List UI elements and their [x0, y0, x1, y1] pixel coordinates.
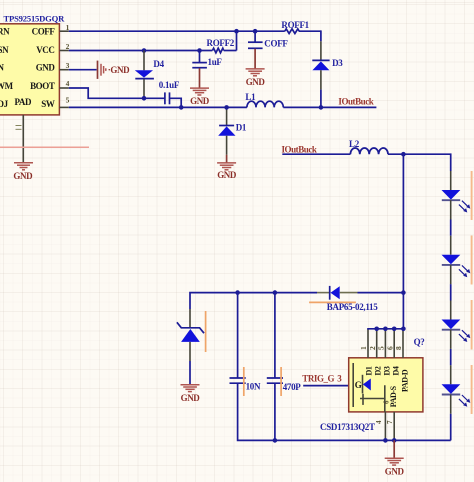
orange marker near 470P [280, 367, 282, 396]
wire VCC pin2 [69, 31, 237, 50]
svg-text:1uF: 1uF [208, 57, 223, 67]
svg-text:8: 8 [394, 346, 403, 350]
IC U1 TPS92515DGQR body [0, 13, 65, 115]
node junction D1/SW [224, 105, 229, 110]
node junction 470P/rail [273, 438, 278, 443]
node junction source pins/rail [383, 438, 396, 443]
capacitor 470P [267, 293, 302, 441]
svg-text:·GND: ·GND [108, 65, 130, 75]
svg-text:4: 4 [66, 79, 70, 88]
node junction VCC/D4 [142, 48, 147, 53]
pin 2 VCC [59, 42, 69, 51]
svg-text:WM: WM [0, 81, 14, 91]
svg-text:VCC: VCC [36, 45, 54, 55]
svg-text:470P: 470P [283, 382, 302, 392]
svg-text:0.1uF: 0.1uF [159, 80, 180, 90]
svg-text:ROFF2: ROFF2 [207, 38, 235, 48]
inductor L1 [245, 92, 283, 107]
wire IOutBuck to L2 [282, 153, 350, 155]
node junction pin1/ROFF2 [234, 29, 239, 34]
svg-text:L1: L1 [245, 92, 256, 102]
pin 4 BOOT [59, 79, 69, 88]
svg-text:BOOT: BOOT [30, 81, 55, 91]
transistor top pins [377, 293, 404, 358]
ground GND under 1uF [190, 88, 210, 106]
svg-text:G: G [355, 380, 362, 390]
inductor L2 [349, 139, 388, 154]
diode D1 freewheeling [218, 107, 247, 162]
node junction rail/10N [235, 290, 240, 295]
ground power port at pin3 [69, 61, 130, 79]
diode BAP65-02,115 [317, 286, 378, 312]
node junction pin1/COFF cap [253, 29, 258, 34]
node junction D3/SW [319, 105, 324, 110]
svg-text:D3: D3 [332, 58, 343, 68]
svg-text:D4: D4 [153, 59, 164, 69]
node junction L2/drain branch [401, 152, 406, 157]
svg-text:PAD-D: PAD-D [401, 369, 410, 392]
node junction VCC/1uF [197, 48, 202, 53]
pin 1 COFF [59, 23, 69, 32]
orange marker under BAP65 [309, 301, 356, 303]
LED D8 [442, 365, 471, 413]
svg-text:SW: SW [41, 99, 55, 109]
wire TRIG_G to gate [303, 385, 353, 387]
svg-text:TPS92515DGQR: TPS92515DGQR [4, 13, 66, 23]
diode D3 [312, 41, 343, 107]
node junction rail/470P [273, 290, 278, 295]
wire COFF pin1 to ROFF1 [69, 30, 321, 32]
wire SW pin5 [69, 106, 377, 108]
svg-text:IOutBuck: IOutBuck [338, 96, 373, 106]
svg-text:10N: 10N [246, 381, 261, 391]
svg-text:Q?: Q? [414, 337, 425, 347]
wire drain branch vertical [402, 154, 404, 292]
svg-text:PAD: PAD [15, 97, 33, 107]
LED D6 [442, 236, 471, 284]
pin 5 SW [59, 96, 69, 108]
svg-text:GND: GND [385, 466, 405, 476]
svg-text:5: 5 [66, 96, 70, 105]
net TRIG_G label [302, 374, 342, 384]
ground GND under PAD [13, 163, 33, 181]
node junctions on top bus [374, 327, 405, 332]
svg-text:D1: D1 [236, 123, 247, 133]
capacitor 1uF [192, 51, 222, 88]
svg-text:COFF: COFF [32, 27, 56, 37]
pin numbers top pins [359, 346, 403, 350]
svg-text:D4: D4 [392, 366, 401, 375]
svg-text:GND: GND [246, 77, 266, 87]
transistor bottom pins [375, 412, 394, 441]
svg-text:BAP65-02,115: BAP65-02,115 [327, 302, 378, 312]
capacitor 0.1uF [159, 80, 180, 104]
orange marker near zener [205, 311, 207, 352]
capacitor COFF [248, 31, 288, 68]
svg-text:D1: D1 [365, 366, 374, 375]
svg-text:TRIG_G: TRIG_G [302, 374, 334, 384]
node junction boot-cap/SW [179, 105, 184, 110]
svg-text:L2: L2 [349, 139, 360, 149]
orange markers right edge [471, 171, 473, 414]
svg-text:6: 6 [385, 346, 394, 350]
orange marker near 10N [243, 367, 245, 396]
wire L2 to LED chain [388, 154, 451, 171]
transistor internal gate symbol [353, 363, 390, 412]
svg-text:D2: D2 [374, 366, 383, 375]
LED D7 [442, 301, 471, 349]
capacitor 10N [230, 293, 451, 441]
wire zener rail [190, 293, 403, 309]
svg-text:GND: GND [36, 63, 56, 73]
svg-text:ROFF1: ROFF1 [281, 20, 309, 30]
svg-text:7: 7 [386, 420, 394, 424]
svg-text:CSD17313Q2T: CSD17313Q2T [320, 422, 375, 432]
svg-text:3: 3 [66, 61, 70, 70]
LED D5 [442, 171, 471, 220]
LED chain wire segments [450, 220, 452, 441]
node junction rail/drain branch [401, 290, 406, 295]
svg-text:GND: GND [190, 96, 210, 106]
zener diode [177, 309, 204, 384]
svg-text:D3: D3 [383, 366, 392, 375]
svg-text:GND: GND [217, 170, 237, 180]
ground GND under COFF [246, 69, 266, 87]
svg-text:2: 2 [368, 346, 377, 350]
svg-text:GND: GND [13, 171, 33, 181]
ground GND under zener [181, 385, 201, 403]
diode D4 bootstrap [135, 51, 165, 99]
ground GND under D1 [217, 163, 237, 180]
svg-text:4: 4 [375, 420, 383, 424]
resistor ROFF1 [281, 20, 309, 34]
wire MOSFET top bus [367, 329, 369, 358]
svg-text:IOutBuck: IOutBuck [282, 145, 317, 155]
svg-text:SN: SN [0, 45, 9, 55]
svg-text:GND: GND [181, 393, 201, 403]
pin PAD thermal pad [16, 115, 24, 163]
ground GND under MOSFET [385, 440, 405, 476]
node junction D4/BOOT [142, 96, 147, 101]
svg-text:3: 3 [337, 374, 342, 384]
pin 3 GND [59, 61, 69, 70]
transistor Q? CSD17313Q2T body [320, 337, 425, 432]
svg-text:2: 2 [66, 42, 70, 51]
svg-text:COFF: COFF [264, 38, 288, 48]
svg-text:1: 1 [359, 346, 368, 350]
resistor ROFF2 [207, 38, 235, 53]
transistor internal pin name texts [365, 366, 410, 407]
svg-text:PAD-S: PAD-S [389, 385, 398, 407]
wire (salmon, cut off at left edge) [0, 146, 89, 148]
wire ROFF1 to D3 [320, 30, 322, 41]
wire BOOT pin4 [69, 88, 181, 107]
svg-text:DJ: DJ [0, 99, 9, 109]
svg-text:5: 5 [377, 346, 386, 350]
svg-text:RN: RN [0, 27, 10, 37]
